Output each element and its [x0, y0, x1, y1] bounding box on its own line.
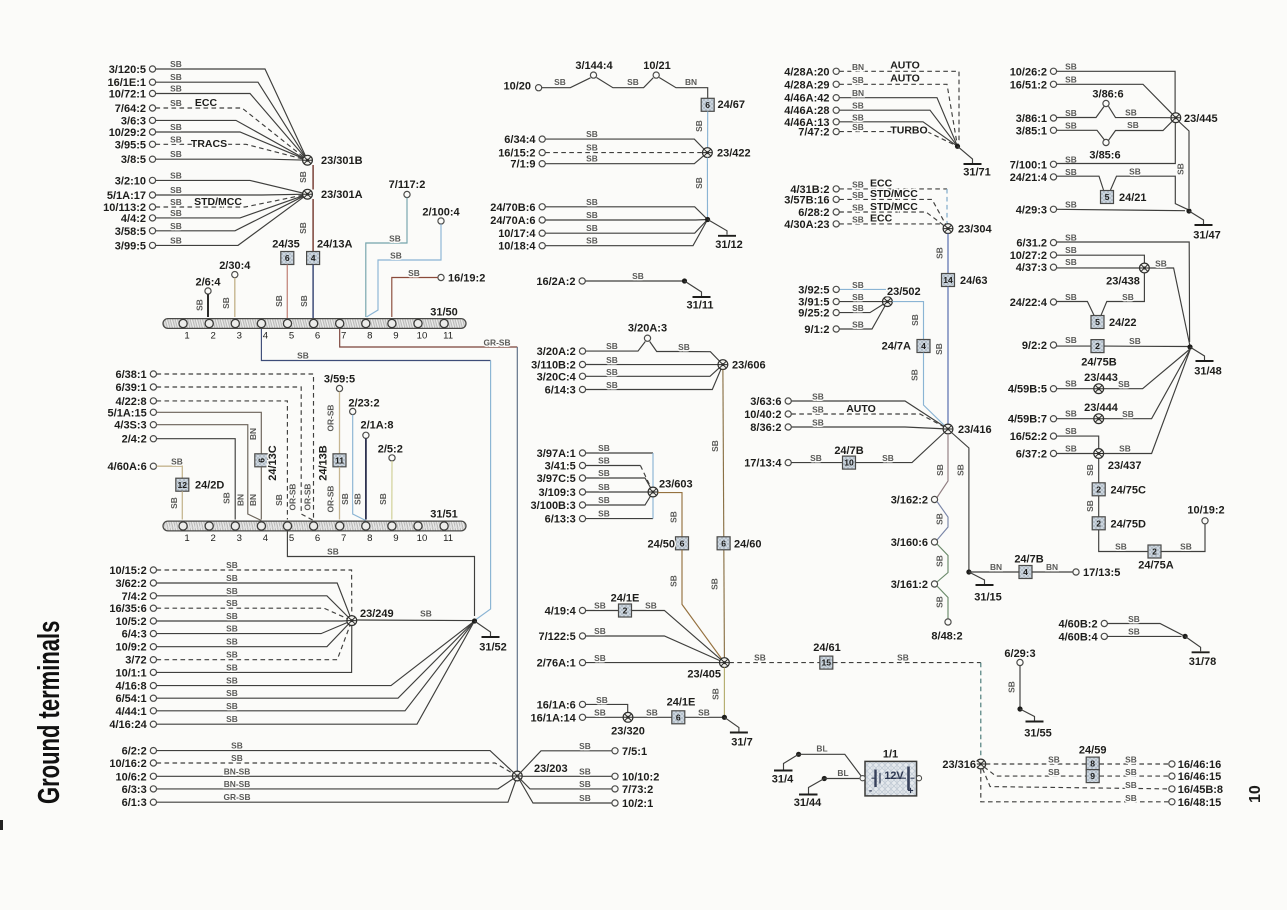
svg-text:3/85:1: 3/85:1: [1016, 125, 1047, 137]
connector 3/72: [150, 657, 156, 663]
svg-text:7/5:1: 7/5:1: [622, 746, 647, 758]
svg-text:5/1A:15: 5/1A:15: [108, 407, 147, 419]
svg-text:SB: SB: [1122, 409, 1134, 419]
svg-text:5: 5: [1105, 192, 1110, 202]
svg-text:31/44: 31/44: [794, 797, 822, 809]
fuse 24/60: [717, 537, 730, 550]
wire 3/85:1 via 3/85:6 to 23/445 (SB): [1057, 130, 1105, 140]
connector 6/3:3: [150, 786, 156, 792]
svg-text:SB: SB: [852, 101, 864, 111]
svg-text:SB: SB: [594, 601, 606, 611]
svg-text:BL: BL: [816, 744, 827, 754]
connector 4/22:8: [150, 398, 156, 404]
svg-text:SB: SB: [586, 236, 598, 246]
connector 7/64:2: [149, 105, 155, 111]
connector 3/85:1: [1050, 127, 1056, 133]
wire 23/422 down to junction (SB): [706, 158, 708, 219]
ground 31/11: [685, 281, 702, 296]
svg-text:SB: SB: [627, 77, 639, 87]
svg-text:8: 8: [367, 533, 372, 544]
wire 16/2A:2 to ground 31/11 (SB): [585, 280, 684, 282]
connector 6/2:2: [150, 748, 156, 754]
connector 16/1A:14: [579, 714, 585, 720]
svg-text:SB: SB: [1065, 245, 1077, 255]
svg-text:BN: BN: [852, 62, 864, 72]
svg-text:SB: SB: [1048, 754, 1060, 764]
connector 10/5:2: [150, 618, 156, 624]
connector 10/10:2: [612, 773, 618, 779]
wire 3/97A:1 to 23/603 (SB): [586, 452, 653, 454]
svg-text:4/4:2: 4/4:2: [121, 213, 146, 225]
wire 23/316 to 16/48:15 (SB): [981, 769, 1169, 802]
svg-text:SB: SB: [226, 586, 238, 596]
svg-text:7/47:2: 7/47:2: [798, 127, 829, 139]
svg-text:SB: SB: [935, 555, 945, 567]
svg-text:BN: BN: [248, 494, 258, 506]
wire 9/1:2 to 23/502 (SB): [839, 302, 887, 329]
svg-text:2/76A:1: 2/76A:1: [537, 658, 576, 670]
wire 10/18:4 to ground junction 31/12 (SB): [545, 220, 707, 246]
wire 24/7B to 17/13:5 (BN): [1032, 571, 1073, 573]
svg-text:SB: SB: [170, 235, 182, 245]
svg-text:SB: SB: [298, 171, 308, 183]
wire 6/34:4 to 23/422 (SB): [545, 139, 707, 153]
svg-text:10/19:2: 10/19:2: [1187, 505, 1224, 517]
wire 8/36:2 to 23/416 (SB): [791, 427, 948, 429]
wire 7/117:2 to 31/50 pin 8 (SB): [366, 198, 407, 317]
svg-text:SB: SB: [598, 443, 610, 453]
svg-text:10: 10: [417, 331, 428, 342]
ground 31/78: [1185, 636, 1201, 651]
wire 16/1A:6 to 23/320 (SB): [586, 704, 628, 712]
svg-text:SB: SB: [669, 575, 679, 587]
svg-text:2/5:2: 2/5:2: [378, 444, 403, 456]
junction node at 31/15: [966, 569, 971, 574]
connector 16/1E:1: [149, 79, 155, 85]
svg-text:10/27:2: 10/27:2: [1010, 250, 1047, 262]
svg-text:3/41:5: 3/41:5: [545, 461, 576, 473]
svg-text:2: 2: [211, 331, 216, 342]
svg-text:23/445: 23/445: [1184, 113, 1218, 125]
svg-text:23/502: 23/502: [887, 286, 921, 298]
wire 3/41:5 to 23/603 (SB): [586, 465, 641, 467]
svg-text:Ground terminals: Ground terminals: [31, 621, 66, 804]
connector 16/52:2: [1050, 433, 1056, 439]
svg-text:23/438: 23/438: [1106, 276, 1140, 288]
wire 24/7A to 23/416 (SB): [924, 353, 949, 429]
junction node at 31/48: [1187, 344, 1192, 349]
svg-text:2/100:4: 2/100:4: [422, 207, 460, 219]
svg-text:3/99:5: 3/99:5: [115, 240, 146, 252]
svg-text:9: 9: [393, 331, 398, 342]
svg-text:SB: SB: [852, 320, 864, 330]
wire 6/31.2 to 31/48 junction (SB): [1057, 242, 1190, 342]
wire 23/444 to 31/48 junction (SB): [1104, 350, 1190, 419]
svg-text:23/444: 23/444: [1084, 402, 1119, 414]
svg-text:6/3:3: 6/3:3: [122, 784, 147, 796]
wire 31/44 to battery (BL): [824, 778, 859, 780]
svg-text:SB: SB: [710, 440, 720, 452]
wire 16/1E:1 to 23/301B: [156, 82, 308, 160]
svg-text:23/301A: 23/301A: [321, 189, 363, 201]
wire 3/109:3 to 23/603 (SB): [586, 491, 649, 493]
svg-text:SB: SB: [852, 214, 864, 224]
connector 4/46A:42: [833, 95, 839, 101]
svg-text:3/144:4: 3/144:4: [575, 60, 613, 72]
svg-text:SB: SB: [645, 601, 657, 611]
wire 7/47:2 to ground junction 31/71 (SB): [839, 132, 957, 147]
svg-text:SB: SB: [420, 609, 432, 619]
terminal 23/301B: [303, 155, 313, 165]
terminal 23/422: [703, 148, 713, 158]
svg-text:10: 10: [1247, 785, 1264, 803]
wire 16/1A:14 to 23/320 (SB): [586, 716, 624, 718]
connector 6/28:2: [833, 209, 839, 215]
splice 3/161:2: [931, 581, 937, 587]
svg-text:SB: SB: [669, 511, 679, 523]
svg-text:6/54:1: 6/54:1: [115, 693, 146, 705]
svg-text:SB: SB: [812, 405, 824, 415]
wire 24/75B to 31/48 junction (SB): [1104, 345, 1190, 347]
svg-text:SB: SB: [1125, 780, 1137, 790]
wire 6/54:1 to junction near 31/52 (SB): [157, 621, 475, 698]
svg-text:BN: BN: [248, 428, 258, 440]
connector 3/95:5: [149, 141, 155, 147]
svg-text:SB: SB: [169, 497, 179, 509]
wire 6/13:3 to 23/603 (SB): [586, 518, 653, 520]
svg-text:SB: SB: [852, 203, 864, 213]
connector 16/15:2: [539, 150, 545, 156]
wire 5/1A:17 to 23/301A: [156, 193, 308, 196]
svg-text:SB: SB: [606, 355, 618, 365]
svg-text:24/13A: 24/13A: [317, 239, 353, 251]
svg-text:SB: SB: [389, 234, 401, 244]
svg-text:10/5:2: 10/5:2: [115, 616, 146, 628]
ground bus bar 31/50: [163, 319, 466, 329]
terminal 23/304: [943, 224, 953, 234]
svg-text:SB: SB: [852, 303, 864, 313]
fuse 24/61: [820, 656, 833, 669]
svg-text:8: 8: [1090, 759, 1095, 769]
connector 3/86:1: [1050, 115, 1056, 121]
svg-text:SB: SB: [340, 493, 350, 505]
connector 4/59B:5: [1050, 386, 1056, 392]
svg-text:3/57B:16: 3/57B:16: [784, 194, 829, 206]
svg-text:ECC: ECC: [870, 213, 893, 225]
connector 3/85:6: [1103, 139, 1109, 145]
wire 23/203 to 10/10:2 (SB): [522, 775, 612, 777]
svg-text:24/2D: 24/2D: [195, 480, 224, 492]
fuse 24/13B: [333, 454, 346, 467]
svg-text:SB: SB: [1085, 464, 1095, 476]
connector 8/48:2: [945, 619, 951, 625]
svg-text:SB: SB: [226, 714, 238, 724]
svg-text:7/117:2: 7/117:2: [389, 179, 426, 191]
wire 10/26:2 to 23/445 (SB): [1057, 71, 1176, 113]
wire 4/46A:13 to ground junction 31/71 (SB): [839, 122, 957, 147]
svg-text:2: 2: [1096, 484, 1101, 494]
connector 7/73:2: [612, 786, 618, 792]
fuse 24/50: [676, 537, 689, 550]
connector 3/2:10: [149, 177, 155, 183]
wire 23/416 down with splices to 8/48:2 (SB): [937, 434, 948, 498]
svg-text:4/46A:28: 4/46A:28: [784, 105, 829, 117]
svg-text:SB: SB: [594, 653, 606, 663]
svg-text:SB: SB: [910, 369, 920, 381]
wire 24/70A:6 to ground junction 31/12 (SB): [545, 219, 707, 222]
wire 23/603 to 24/50 (SB): [658, 493, 682, 537]
fuse 24/7B (10): [843, 456, 856, 469]
svg-text:11: 11: [443, 533, 453, 544]
svg-text:24/7B: 24/7B: [834, 445, 863, 457]
svg-text:SB: SB: [694, 177, 704, 189]
svg-text:2: 2: [623, 606, 628, 616]
wire 4/28A:29 to ground junction 31/71 (SB): [839, 84, 957, 146]
svg-text:SB: SB: [170, 208, 182, 218]
connector 4/3S:3: [150, 422, 156, 428]
svg-text:3/160:6: 3/160:6: [891, 537, 928, 549]
svg-text:SB: SB: [955, 464, 965, 476]
svg-text:SB: SB: [1129, 336, 1141, 346]
wire 24/22:4 to fuse 24/22 (SB): [1057, 302, 1094, 316]
svg-text:6: 6: [676, 712, 681, 722]
svg-text:16/46:15: 16/46:15: [1178, 771, 1221, 783]
svg-text:SB: SB: [678, 342, 690, 352]
connector 2/4:2: [150, 436, 156, 442]
wire 23/606 down to 23/405 (SB): [723, 370, 725, 658]
svg-text:4/29:3: 4/29:3: [1016, 204, 1047, 216]
connector 6/31.2: [1050, 240, 1056, 246]
svg-text:3/97A:1: 3/97A:1: [537, 448, 576, 460]
wire SB vertical to junction near 31/52: [476, 361, 491, 620]
connector 16/35:6: [150, 605, 156, 611]
svg-text:SB: SB: [882, 453, 894, 463]
svg-text:23/422: 23/422: [717, 148, 751, 160]
svg-text:6/31.2: 6/31.2: [1016, 238, 1047, 250]
svg-text:SB: SB: [408, 268, 420, 278]
terminal 23/445: [1171, 113, 1181, 123]
svg-text:3/85:6: 3/85:6: [1089, 150, 1120, 162]
svg-text:3/72: 3/72: [125, 655, 146, 667]
wire 24/63 to 23/416 (SB): [947, 287, 949, 424]
svg-text:24/21:4: 24/21:4: [1010, 172, 1048, 184]
junction node at 31/47: [1186, 208, 1191, 213]
svg-text:SB: SB: [1128, 627, 1140, 637]
svg-text:SB: SB: [1118, 379, 1130, 389]
svg-text:31/11: 31/11: [687, 300, 714, 312]
svg-text:SB: SB: [1065, 199, 1077, 209]
terminal 23/249: [347, 616, 357, 626]
connector 3/91:5: [833, 299, 839, 305]
svg-text:6: 6: [315, 331, 320, 342]
svg-text:24/63: 24/63: [960, 275, 988, 287]
svg-text:SB: SB: [226, 650, 238, 660]
wire 23/316 to 16/45B:8 (SB): [983, 769, 1169, 789]
svg-text:7/4:2: 7/4:2: [122, 591, 147, 603]
svg-text:SB: SB: [598, 468, 610, 478]
svg-text:16/2A:2: 16/2A:2: [536, 276, 575, 288]
svg-text:SB: SB: [598, 456, 610, 466]
svg-text:24/22:4: 24/22:4: [1010, 297, 1048, 309]
svg-text:ECC: ECC: [195, 97, 218, 109]
svg-text:5: 5: [289, 331, 294, 342]
svg-text:7/100:1: 7/100:1: [1010, 159, 1047, 171]
connector 10/72:1: [149, 90, 155, 96]
svg-text:SB: SB: [852, 280, 864, 290]
wire 24/75C to 24/75D (SB): [1098, 496, 1100, 517]
ground 31/15: [969, 572, 985, 584]
svg-text:SB: SB: [598, 509, 610, 519]
wire 16/19:2 to 31/50 pin 9 (SB): [392, 278, 438, 318]
svg-text:3/20C:4: 3/20C:4: [537, 371, 577, 383]
svg-text:10/26:2: 10/26:2: [1010, 66, 1047, 78]
svg-text:SB: SB: [222, 492, 232, 504]
fuse 24/22: [1091, 316, 1104, 329]
wire 4/28A:20 to ground junction 31/71 (BN): [839, 71, 959, 146]
wire 24/67 to 23/422 (SB): [707, 111, 709, 147]
wire 3/110B:2 to 23/606 (SB): [586, 364, 718, 366]
svg-text:6/38:1: 6/38:1: [115, 369, 146, 381]
svg-text:2: 2: [1096, 518, 1101, 528]
connector 4/46A:28: [833, 107, 839, 113]
svg-text:BN-SB: BN-SB: [224, 766, 251, 776]
svg-text:5: 5: [1095, 317, 1100, 327]
wire 3/100B:3 to 23/603 (SB): [586, 492, 653, 505]
svg-text:10/29:2: 10/29:2: [109, 127, 146, 139]
svg-text:SB: SB: [935, 513, 945, 525]
connector 7/1:9: [539, 161, 545, 167]
svg-text:BN: BN: [685, 77, 697, 87]
svg-text:31/7: 31/7: [731, 737, 752, 749]
wire 23/438 to ground junction 31/48 (SB): [1149, 268, 1190, 346]
svg-text:2/6:4: 2/6:4: [195, 277, 221, 289]
wire 3/86:1 via 3/86:6 to 23/445 (SB): [1057, 107, 1104, 118]
svg-text:10/21: 10/21: [643, 60, 671, 72]
connector 4/60A:6: [150, 463, 156, 469]
svg-text:SB: SB: [170, 98, 182, 108]
svg-text:4/59B:5: 4/59B:5: [1008, 384, 1047, 396]
svg-text:SB: SB: [170, 84, 182, 94]
terminal 23/416: [943, 424, 953, 434]
svg-text:6/39:1: 6/39:1: [115, 382, 146, 394]
svg-text:SB: SB: [1065, 444, 1077, 454]
svg-text:6/28:2: 6/28:2: [798, 207, 829, 219]
svg-text:SB: SB: [1065, 108, 1077, 118]
connector 10/16:2: [150, 760, 156, 766]
svg-text:SB: SB: [274, 494, 284, 506]
svg-text:SB: SB: [226, 676, 238, 686]
wire 2/5:2 to 31/51 pin 9 (SB): [391, 461, 393, 520]
svg-text:16/19:2: 16/19:2: [448, 273, 485, 285]
wire 23/304 to 24/63 (SB): [947, 234, 949, 274]
svg-text:3/63:6: 3/63:6: [750, 396, 781, 408]
svg-text:SB: SB: [1125, 108, 1137, 118]
svg-text:23/603: 23/603: [659, 479, 693, 491]
wire GR-SB vertical to 23/203: [516, 347, 518, 771]
svg-text:OR-SB: OR-SB: [302, 484, 312, 511]
wire 31/50 pin 7 down-right (GR-SB): [340, 329, 518, 347]
terminal 23/606: [718, 360, 728, 370]
fuse 24/75B: [1091, 340, 1104, 353]
svg-text:7/122:5: 7/122:5: [538, 631, 575, 643]
connector 6/34:4: [539, 136, 545, 142]
wire 4/59B:5 to 23/443 (SB): [1057, 388, 1094, 390]
svg-text:10: 10: [417, 533, 428, 544]
connector 6/39:1: [150, 384, 156, 390]
connector 3/97C:5: [579, 475, 585, 481]
connector 10/17:4: [539, 230, 545, 236]
connector 4/16:8: [150, 683, 156, 689]
svg-text:4/28A:20: 4/28A:20: [784, 66, 829, 78]
svg-text:SB: SB: [170, 59, 182, 69]
svg-text:31/51: 31/51: [430, 509, 458, 521]
terminal 23/502: [883, 297, 893, 307]
fuse 24/2D: [176, 478, 189, 491]
svg-text:SB: SB: [897, 653, 909, 663]
connector 6/38:1: [150, 371, 156, 377]
svg-text:4: 4: [311, 253, 316, 263]
svg-text:1/1: 1/1: [883, 749, 898, 761]
svg-text:SB: SB: [171, 457, 183, 467]
connector 7/100:1: [1050, 161, 1056, 167]
svg-text:6/34:4: 6/34:4: [504, 134, 536, 146]
terminal 23/316: [976, 759, 986, 769]
connector 3/100B:3: [579, 502, 585, 508]
svg-text:SB: SB: [1065, 409, 1077, 419]
wire 24/61 dashed to 23/316 (SB): [833, 662, 981, 664]
wire 23/316 to 16/46:16 (SB) through 24/59 pin 8: [986, 763, 1086, 765]
wire 23/416 to ground junction 31/15 (SB): [952, 433, 969, 573]
svg-text:24/7B: 24/7B: [1014, 554, 1043, 566]
wire 16/52:2 to 23/437 (SB): [1057, 436, 1099, 449]
wire 24/7B to 23/416 (SB): [856, 429, 948, 463]
wire 10/6:2 to 23/203 (BN-SB): [157, 775, 518, 777]
connector 5/1A:17: [149, 192, 155, 198]
svg-text:9: 9: [393, 533, 398, 544]
fuse 24/75D: [1092, 517, 1105, 530]
terminal 23/301A: [303, 189, 313, 199]
svg-text:2: 2: [1095, 341, 1100, 351]
svg-text:10/16:2: 10/16:2: [109, 758, 146, 770]
connector 6/4:3: [150, 631, 156, 637]
ground 31/55: [1020, 709, 1035, 721]
svg-text:SB: SB: [606, 341, 618, 351]
wire 4/44:1 to junction near 31/52 (SB): [157, 621, 475, 711]
svg-text:SB: SB: [226, 598, 238, 608]
wire 3/92:5 to 23/502 (SB): [839, 289, 887, 301]
svg-text:31/71: 31/71: [963, 167, 991, 179]
svg-text:3/62:2: 3/62:2: [115, 578, 146, 590]
wire 24/35 to 31/50 pin 5 (SB): [286, 265, 288, 318]
svg-text:16/1A:6: 16/1A:6: [537, 699, 576, 711]
svg-text:SB: SB: [1065, 379, 1077, 389]
svg-text:SB: SB: [852, 292, 864, 302]
svg-text:8: 8: [367, 331, 372, 342]
wire 4/46A:28 to ground junction 31/71 (SB): [839, 110, 957, 146]
svg-text:3/162:2: 3/162:2: [891, 495, 928, 507]
svg-text:7: 7: [341, 331, 346, 342]
wire 3/2:10 to 23/301A: [156, 180, 308, 194]
junction node at 31/7: [722, 715, 727, 720]
svg-text:SB: SB: [226, 560, 238, 570]
svg-text:24/22: 24/22: [1109, 317, 1137, 329]
wire 23/301B to 23/301A (SB): [312, 165, 314, 190]
junction node at 31/78: [1183, 634, 1188, 639]
connector 24/22:4: [1050, 299, 1056, 305]
svg-text:6: 6: [315, 533, 320, 544]
connector 6/13:3: [579, 516, 585, 522]
wire 9/2:2 to fuse 24/75B (SB): [1057, 345, 1091, 347]
